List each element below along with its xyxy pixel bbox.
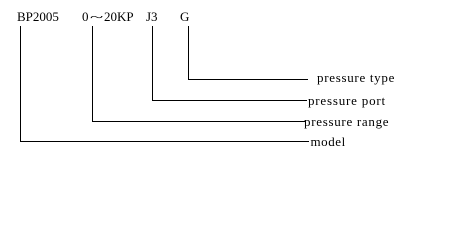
code text BP2005 bbox=[17, 10, 59, 23]
wire horizontal to pressure range bbox=[92, 121, 306, 122]
label pressure range bbox=[304, 115, 389, 128]
wire horizontal to pressure type bbox=[188, 79, 308, 80]
wire vertical from J3 bbox=[152, 26, 153, 101]
wire horizontal to pressure port bbox=[152, 100, 307, 101]
label pressure port bbox=[308, 94, 386, 107]
wire horizontal to model bbox=[20, 141, 309, 142]
label pressure type bbox=[317, 71, 395, 84]
wire vertical from G bbox=[188, 26, 189, 80]
code text 0~20KP bbox=[82, 10, 134, 23]
label model bbox=[311, 135, 346, 148]
wire vertical from BP2005 bbox=[20, 26, 21, 142]
code text G bbox=[180, 10, 189, 23]
wire vertical from 0~20KP bbox=[92, 26, 93, 122]
code text J3 bbox=[146, 10, 158, 23]
